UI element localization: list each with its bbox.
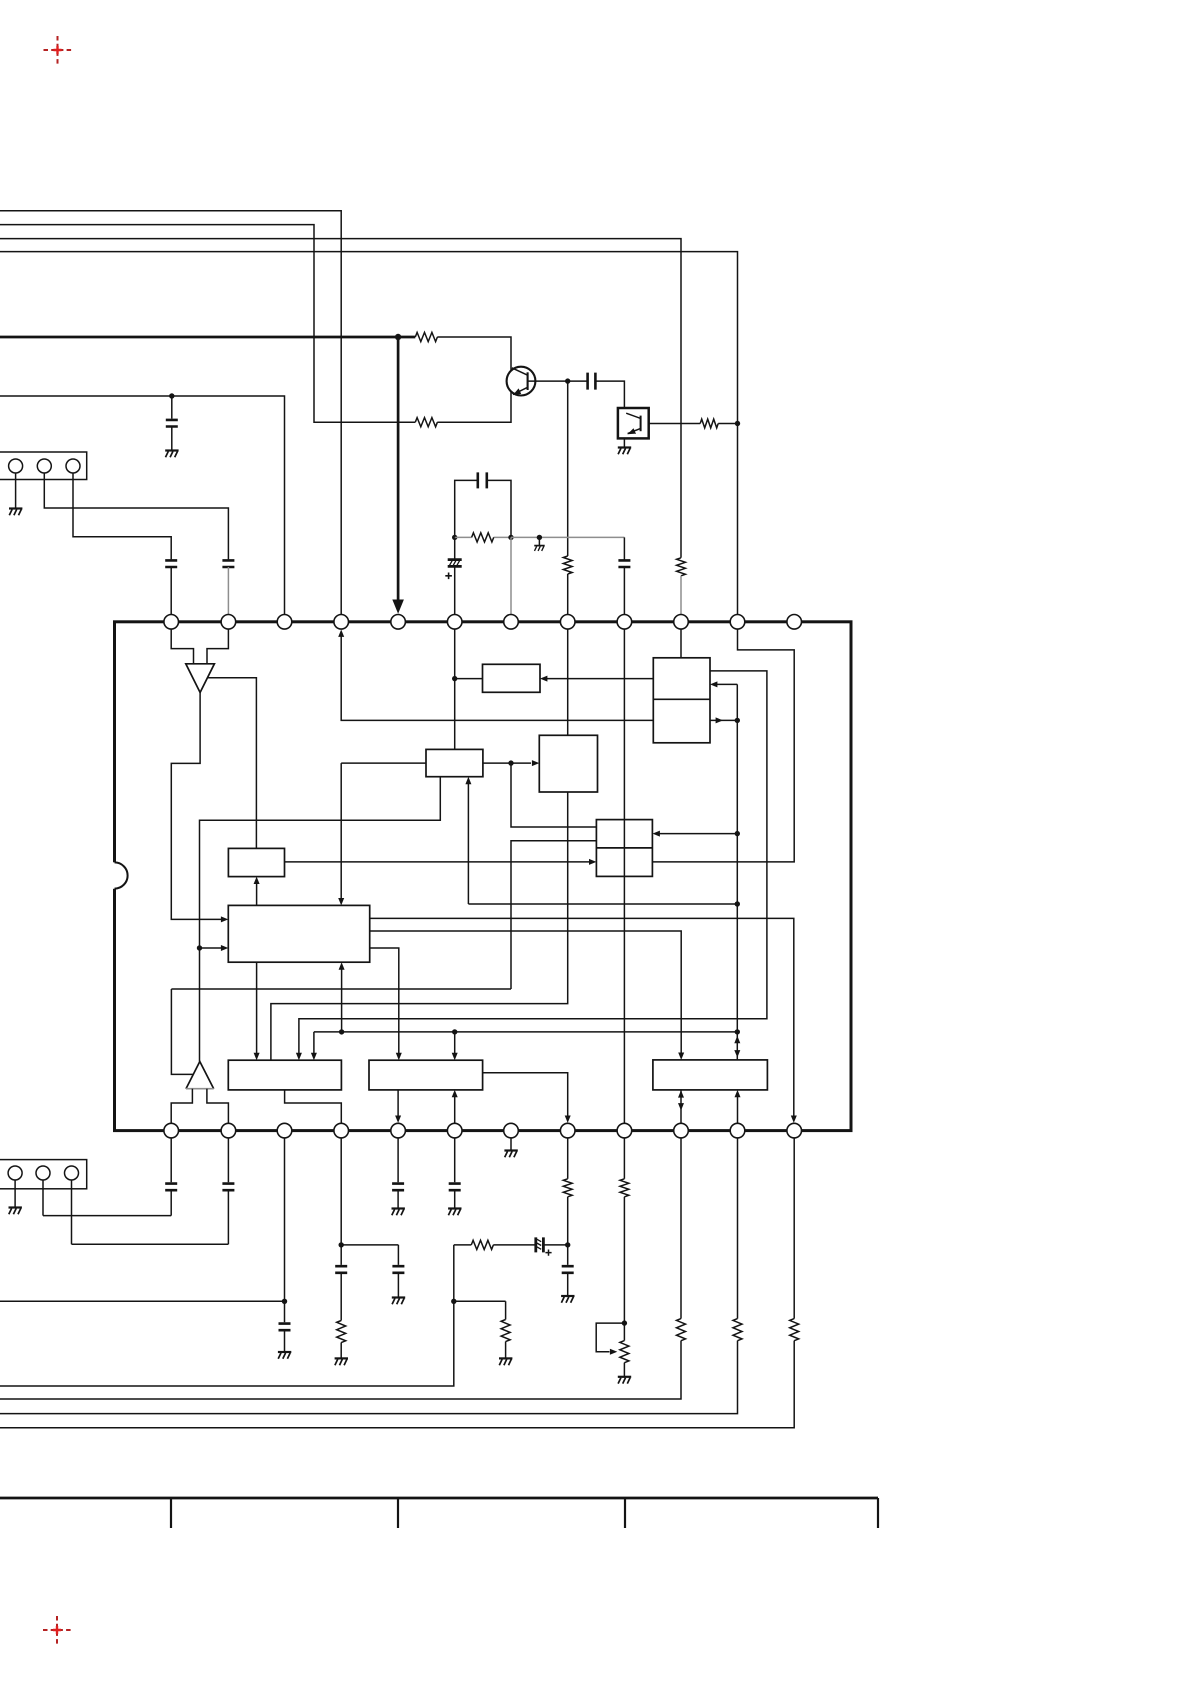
block U1a <box>483 664 541 692</box>
pin 6 top <box>447 615 462 630</box>
block U1j <box>653 1060 768 1090</box>
ground under X1 <box>618 448 631 455</box>
capacitor C11 <box>392 1266 404 1297</box>
IC notch <box>115 862 128 888</box>
capacitor C7 above pin 9 <box>618 560 630 567</box>
pin 18 bottom <box>447 1123 462 1138</box>
wire double arrow bus to U1j top <box>734 1032 740 1060</box>
wire arrow up into U1d bottom <box>465 777 471 904</box>
resistor R7 <box>337 1321 346 1343</box>
block U1e (two cells) <box>596 820 652 877</box>
wire U1h output to pin 16 <box>285 1090 342 1123</box>
wire pin1 to A1 <box>171 629 193 664</box>
wire U1g top to U1f bottom with arrow <box>254 877 260 906</box>
wire branch down to U1g top with arrow <box>338 763 344 905</box>
connector J1 pin b <box>37 459 51 473</box>
wire gray bus to pin 9 network <box>511 536 624 538</box>
resistor R12 below pin 22 <box>677 1138 686 1341</box>
node junction 1032 bus left <box>339 1029 344 1034</box>
node junction 1032 bus mid <box>452 1029 457 1034</box>
wire C8 to J2-b <box>43 1180 171 1216</box>
capacitor C10 below junction <box>279 1301 291 1352</box>
wire pin6 to node A <box>454 629 456 679</box>
pin 7 top <box>504 615 519 630</box>
node D junction <box>339 1242 344 1247</box>
block U1h <box>228 1060 341 1090</box>
wire U1b upper right to bus 1018 to U1h <box>299 671 767 1057</box>
wire U1g bottom to U1h with arrow <box>254 962 260 1060</box>
wire pin9 to pin21 through line <box>623 629 625 1123</box>
resistor R9 in series <box>454 1240 535 1249</box>
wire A2 pedestal left to pin 13 <box>171 1089 192 1124</box>
capacitor C4 above pin 1 <box>165 560 177 567</box>
transistor Q1 <box>507 367 536 396</box>
wire node B down to pin 8 <box>567 381 569 556</box>
connector J1 pin a <box>9 459 23 473</box>
label plus C5 <box>445 573 452 580</box>
ground under C10 <box>278 1352 291 1359</box>
pin 3 top <box>277 615 292 630</box>
ceramic discriminator X1 (boxed transistor) <box>618 408 649 438</box>
wire U1d to node C <box>483 762 511 764</box>
wire pin 15 long drop <box>284 1138 286 1301</box>
pin 12 top <box>787 615 802 630</box>
pin 16 bottom <box>334 1123 349 1138</box>
wire node F to bus line 1 <box>0 1301 454 1386</box>
block U1c <box>539 735 597 792</box>
wire A1 output chain to U1g <box>171 693 224 920</box>
pin 2 top <box>221 615 236 630</box>
ground under VR1 <box>618 1377 631 1384</box>
ground under R10 <box>499 1358 512 1365</box>
wire R6 to pin 10 (gray) <box>680 576 682 615</box>
wire net1 top line to pin 4 <box>0 211 341 615</box>
capacitor C8 below pin 13 <box>165 1138 177 1216</box>
wire Q1 base to node B <box>528 380 568 382</box>
wire net6 with bypass to pin 3 <box>0 396 285 615</box>
capacitor C12 below node D <box>335 1245 347 1321</box>
resistor R8 below pin 20 <box>563 1138 572 1245</box>
wire gray to C7 <box>623 537 625 559</box>
node junction on thick line <box>395 334 401 340</box>
pin 1 top <box>164 615 179 630</box>
block U1i <box>369 1060 483 1090</box>
resistor R14 below pin 24 <box>790 1138 799 1341</box>
pin 14 bottom <box>221 1123 236 1138</box>
wire U1b lower output to node <box>710 717 737 723</box>
node junction bus at 833 <box>735 831 740 836</box>
ground under C13 <box>392 1209 405 1216</box>
ground under R7 <box>335 1358 348 1365</box>
wire node C to U1e upper input 1 <box>511 763 596 827</box>
wire long vertical bus right <box>736 684 738 1032</box>
ground under C11 <box>392 1298 405 1305</box>
pin 15 bottom <box>277 1123 292 1138</box>
block U1g (large) <box>228 905 369 962</box>
pin 10 top <box>674 615 689 630</box>
wire U1i bottom to pin 17 with arrow <box>395 1090 401 1123</box>
wire node D branch right <box>341 1245 398 1265</box>
capacitor C9 below pin 14 <box>222 1138 234 1244</box>
wire pin2 to A1 <box>207 629 228 664</box>
pin 11 top <box>730 615 745 630</box>
wire pin10 to U1b top <box>680 629 682 658</box>
wire arrow into pin 5 <box>392 600 404 614</box>
wire U1c bottom to 1003 bus to U1h <box>271 792 568 1060</box>
wire J2-a to ground <box>14 1180 16 1208</box>
wire 904 link to bus <box>468 903 737 905</box>
capacitor C3 above pin 2 <box>222 560 234 567</box>
connector J1 body <box>0 452 87 480</box>
pin 13 bottom <box>164 1123 179 1138</box>
node A junction <box>452 676 457 681</box>
wire A1 side output to U1f <box>207 678 256 849</box>
wire U1b to U1a with arrow <box>540 676 653 682</box>
wire U1g output 3 to U1i top with arrow <box>370 948 402 1060</box>
wire pin8 to U1c top <box>567 629 569 735</box>
capacitor C14 below pin 18 <box>449 1138 461 1209</box>
wire arrow from bus into U1e upper right <box>653 831 738 837</box>
wire net4 fourth line to pin 11 <box>0 252 738 615</box>
wire J1-b to C3 <box>44 473 228 559</box>
node junction bus at 904 <box>735 901 740 906</box>
node C junction <box>508 760 513 765</box>
ground under C2 <box>165 451 178 458</box>
resistor R10 <box>501 1320 510 1342</box>
connector J2 pin a <box>8 1166 22 1180</box>
node junction above pin 6 <box>452 535 457 540</box>
capacitor C1 (coupling) <box>568 373 625 408</box>
node junction with ground tap <box>537 535 542 540</box>
ground under C16 <box>561 1296 574 1303</box>
label plus C15 <box>545 1250 551 1256</box>
node G junction <box>622 1320 627 1325</box>
ground under J1-a <box>9 509 22 516</box>
ruler baseline <box>0 1497 878 1500</box>
wire X1 ground stub <box>623 438 625 447</box>
node junction net6 <box>169 393 174 398</box>
wire net2 second line to lower resistor <box>0 225 415 423</box>
wire C9 to J2-c <box>72 1180 229 1244</box>
node E junction <box>565 1242 570 1247</box>
IC notch erase <box>111 862 118 889</box>
wire arrow into U1h from 1032 bus <box>311 1053 317 1060</box>
wire U1j bottom to pin 22 with arrows <box>678 1090 684 1123</box>
wire R14 to bus line 4 <box>0 1341 794 1428</box>
pin 21 bottom <box>617 1123 632 1138</box>
ground small at tap <box>534 546 544 551</box>
ruler tick 4 <box>877 1498 879 1528</box>
pin 17 bottom <box>391 1123 406 1138</box>
connector J2 body <box>0 1160 87 1189</box>
wire branch arrow into U1i top <box>452 1032 458 1060</box>
wire node A to U1a <box>455 678 483 680</box>
wire U1e upper input 2 from 989 bus <box>511 841 596 989</box>
wire 989 bus to A2 side input <box>171 989 511 1074</box>
wire node A down to U1d top <box>454 679 456 750</box>
capacitor C13 below pin 17 <box>392 1138 404 1209</box>
resistor R11 below pin 21 <box>620 1138 629 1323</box>
IC U1 outline <box>115 622 852 1131</box>
wire A2 apex vertical to U1d bottom <box>200 777 441 1062</box>
block U1d <box>426 749 483 776</box>
wire ground tap stub <box>538 537 540 545</box>
ruler tick 2 <box>397 1498 399 1528</box>
wire C4 to pin 1 <box>170 567 172 615</box>
ground under J2-a <box>9 1208 22 1215</box>
wire R7 to ground <box>340 1343 342 1359</box>
wire X1 output <box>649 423 701 425</box>
wire net3 third line to pin 10 <box>0 239 681 558</box>
wire arrow into U1g left lower <box>200 945 229 951</box>
pin 8 top <box>560 615 575 630</box>
wire node to pin 7 (gray) <box>510 537 512 614</box>
wire pin 16 drop to node D <box>340 1138 342 1245</box>
resistor R3 above pin 8 <box>563 556 572 574</box>
wire R2 to Q1 emitter <box>437 391 511 422</box>
wire U1f output to U1e lower left with arrow <box>285 859 597 865</box>
wire pin11 jog to U1e lower right <box>652 629 794 862</box>
wire R1 to Q1 collector <box>437 337 511 371</box>
wire thick drop to pin 5 <box>397 337 400 601</box>
variable resistor VR1 <box>596 1323 629 1377</box>
block U1b (two cells) <box>653 658 710 743</box>
node junction 1032 bus right <box>735 1029 740 1034</box>
pin 4 top <box>334 615 349 630</box>
registration cross bottom <box>43 1616 71 1644</box>
node junction above pin 7 <box>508 535 513 540</box>
node B junction <box>565 378 570 383</box>
wire C3 to pin 2 (gray) <box>227 567 229 615</box>
pin 22 bottom <box>674 1123 689 1138</box>
pin 20 bottom <box>560 1123 575 1138</box>
wire R12 to bus line 2 <box>0 1341 681 1399</box>
pin 5 top <box>391 615 406 630</box>
wire pin4 internal with up arrow <box>338 630 653 721</box>
op-amp A2 output buffer (triangle) <box>186 1062 214 1089</box>
resistor R4 <box>700 419 718 428</box>
connector J2 pin c <box>65 1166 79 1180</box>
pin 19 bottom <box>504 1123 519 1138</box>
node junction on pin-11 line <box>735 421 740 426</box>
wire series chain down to node F <box>453 1245 455 1301</box>
wire R4 to pin-11 line <box>718 423 737 425</box>
registration cross top <box>44 36 72 64</box>
capacitor C6 parallel over R5 <box>455 472 511 537</box>
ruler tick 1 <box>170 1498 172 1528</box>
capacitor C5 electrolytic above pin 6 <box>448 537 462 614</box>
wire 1032 bus <box>314 1032 737 1057</box>
wire arrow into U1h (from 1018 bus) <box>296 1053 302 1060</box>
ruler tick 3 <box>624 1498 626 1528</box>
wire into U1d left <box>341 762 426 764</box>
wire A2 pedestal right to pin 14 <box>207 1089 229 1124</box>
wire arrow into U1g left upper <box>221 916 228 922</box>
resistor R5 <box>455 533 511 542</box>
wire node F branch to R10 <box>454 1301 506 1319</box>
node junction on apex line <box>197 945 202 950</box>
ground under C14 <box>448 1209 461 1216</box>
wire R10 to ground <box>505 1342 507 1359</box>
pin 9 top <box>617 615 632 630</box>
wire up arrow into U1g bottom from 1032 bus <box>339 962 345 1032</box>
wire U1g output 1 to pin 24 with arrow <box>370 918 797 1123</box>
connector J1 pin c <box>66 459 80 473</box>
resistor R13 below pin 23 <box>733 1138 742 1341</box>
wire R3 to pin 8 <box>567 574 569 615</box>
op-amp A1 input buffer (triangle) <box>186 664 215 693</box>
wire U1i right output to pin 20 with arrow <box>483 1073 571 1123</box>
wire arrow node C into U1c <box>511 760 539 766</box>
pin 24 bottom <box>787 1123 802 1138</box>
wire C7 to pin 9 (gray) <box>623 567 625 615</box>
wire pin 23 up into U1j with arrow <box>735 1090 741 1123</box>
resistor R6 lower part above pin 10 <box>677 558 686 576</box>
resistor R1 <box>415 332 437 341</box>
wire R13 to bus line 3 <box>0 1341 738 1414</box>
node junction <box>735 718 740 723</box>
capacitor C2 to ground <box>166 396 178 451</box>
pin 23 bottom <box>730 1123 745 1138</box>
ground under pin 19 <box>504 1151 517 1158</box>
connector J2 pin b <box>36 1166 50 1180</box>
wire J1-c to C4 <box>73 473 171 559</box>
wire U1g output 2 to U1j top with arrow <box>370 931 685 1060</box>
wire net7 from left edge <box>0 1300 285 1302</box>
capacitor C15 electrolytic in series <box>536 1237 568 1252</box>
wire VCC feed from left (thick) <box>0 336 415 339</box>
node F junction <box>451 1299 456 1304</box>
block U1f <box>228 848 284 876</box>
node junction net7 <box>282 1299 287 1304</box>
capacitor C16 below node E <box>562 1245 574 1296</box>
wire pin 18 up into U1i with arrow <box>452 1090 458 1123</box>
wire J1-a to ground <box>15 473 17 509</box>
wire arrow into U1b right <box>710 681 737 687</box>
ground stub pin 19 <box>510 1138 512 1151</box>
resistor R2 <box>415 418 437 427</box>
